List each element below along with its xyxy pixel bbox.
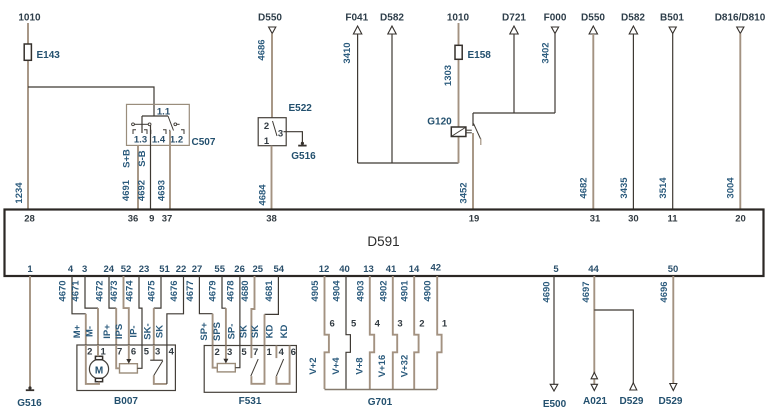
switch E522 <box>258 118 286 146</box>
svg-text:4696: 4696 <box>659 281 670 302</box>
svg-text:1: 1 <box>442 319 448 330</box>
potentiometer IPS <box>120 364 138 373</box>
svg-text:4682: 4682 <box>579 177 590 198</box>
svg-text:28: 28 <box>24 214 35 225</box>
svg-text:50: 50 <box>668 264 679 275</box>
fuse E143 <box>24 44 31 60</box>
control unit D591 <box>5 210 764 277</box>
svg-text:3435: 3435 <box>619 177 630 199</box>
svg-text:4678: 4678 <box>225 280 236 301</box>
svg-text:D529: D529 <box>659 396 683 407</box>
svg-text:42: 42 <box>431 263 442 274</box>
wire pin4 <box>166 345 168 384</box>
svg-text:A021: A021 <box>583 396 607 407</box>
svg-text:4672: 4672 <box>95 280 106 301</box>
svg-text:4681: 4681 <box>264 280 275 302</box>
C507 contact circle right <box>174 123 177 126</box>
arrow A021 up <box>591 373 597 379</box>
wire 3514 <box>672 34 674 210</box>
motor M <box>89 359 108 378</box>
svg-text:IP+: IP+ <box>102 324 113 339</box>
E522 pin3 branch to ground <box>284 132 303 143</box>
svg-text:V+32: V+32 <box>400 355 411 377</box>
svg-text:SK: SK <box>250 325 261 338</box>
svg-text:2: 2 <box>419 319 424 330</box>
wire 4681 KD <box>265 276 279 314</box>
svg-text:4671: 4671 <box>71 280 82 302</box>
svg-text:C507: C507 <box>192 137 216 148</box>
svg-text:F000: F000 <box>544 13 567 24</box>
svg-text:3: 3 <box>155 347 160 358</box>
svg-text:G120: G120 <box>427 117 452 128</box>
svg-text:B007: B007 <box>114 396 138 407</box>
svg-text:IP-: IP- <box>129 325 140 337</box>
C507 pin bracket 1.2 <box>170 130 184 134</box>
arrow D721 up <box>510 26 518 34</box>
wire bus to G120 coil <box>358 162 459 164</box>
svg-text:5: 5 <box>144 347 150 358</box>
svg-text:27: 27 <box>192 264 203 275</box>
svg-text:E158: E158 <box>468 50 492 61</box>
svg-text:E522: E522 <box>289 103 313 114</box>
wire 4697 to A021 <box>593 276 595 384</box>
svg-text:M+: M+ <box>72 324 83 338</box>
svg-text:G701: G701 <box>368 397 393 408</box>
svg-text:S-B: S-B <box>137 150 148 167</box>
arrow D550 up <box>589 26 597 34</box>
B007 box <box>77 345 175 391</box>
svg-text:3452: 3452 <box>459 182 470 203</box>
svg-text:M: M <box>95 366 103 377</box>
wire pin5 to pot <box>137 345 142 368</box>
wire 4678 SP- <box>239 276 241 346</box>
svg-text:36: 36 <box>128 214 139 225</box>
wire bus to G120 switch <box>473 112 555 114</box>
wire pin6 wiper arrow <box>128 345 130 361</box>
wire coil drop <box>458 137 460 164</box>
svg-text:1010: 1010 <box>18 13 41 24</box>
svg-text:6: 6 <box>131 347 136 358</box>
svg-text:D582: D582 <box>380 13 404 24</box>
svg-text:14: 14 <box>409 264 420 275</box>
unit F531 <box>185 276 297 407</box>
svg-text:V+8: V+8 <box>354 357 365 374</box>
svg-text:4674: 4674 <box>125 280 136 302</box>
svg-text:1303: 1303 <box>443 65 454 86</box>
wire 3452 to pin 19 <box>472 133 474 210</box>
svg-text:1.3: 1.3 <box>134 135 147 146</box>
svg-text:38: 38 <box>266 214 277 225</box>
C507 contact circle left <box>132 123 135 126</box>
wire 4900 <box>437 276 441 389</box>
wire 4901 V+32 <box>414 276 418 389</box>
wire 4684 <box>271 146 273 210</box>
svg-text:3: 3 <box>82 264 87 275</box>
svg-text:D529: D529 <box>620 396 644 407</box>
C507 contact stub right <box>177 123 180 125</box>
svg-text:D591: D591 <box>367 234 399 249</box>
G120 switch <box>472 113 474 126</box>
G120 coil <box>451 127 466 137</box>
svg-text:6: 6 <box>330 319 335 330</box>
wire 4691 S+B <box>137 145 139 209</box>
svg-text:1: 1 <box>27 264 33 275</box>
svg-text:SK: SK <box>239 325 250 338</box>
arrow F000 down <box>551 27 558 34</box>
G120 switch stub <box>480 139 482 146</box>
wire D582 <box>391 34 393 163</box>
svg-text:4: 4 <box>68 264 74 275</box>
svg-text:SPS: SPS <box>212 322 223 341</box>
C507 contact circle mid <box>148 123 151 126</box>
F531 box <box>204 346 296 393</box>
svg-text:54: 54 <box>274 264 285 275</box>
svg-text:4692: 4692 <box>137 180 148 201</box>
svg-text:4697: 4697 <box>581 281 592 302</box>
svg-text:3: 3 <box>278 129 283 140</box>
KD switch blade <box>276 359 283 376</box>
arrow D529 down <box>630 383 637 390</box>
KD switch link to pin6 <box>276 346 289 384</box>
svg-text:4680: 4680 <box>240 280 251 301</box>
svg-text:25: 25 <box>253 264 264 275</box>
svg-text:4902: 4902 <box>378 280 389 301</box>
svg-text:4905: 4905 <box>310 280 321 302</box>
arrow D816/D810 down <box>737 27 744 34</box>
wire pin3 wiper arrow <box>225 346 227 361</box>
svg-text:D816/D810: D816/D810 <box>715 13 766 24</box>
svg-text:D582: D582 <box>621 13 645 24</box>
wire pin7 to pot <box>116 345 119 368</box>
E522 contact blade <box>273 121 278 136</box>
svg-text:E143: E143 <box>37 50 61 61</box>
svg-text:4900: 4900 <box>423 280 434 301</box>
wire 4673 IPS <box>124 276 129 345</box>
svg-text:4: 4 <box>279 347 285 358</box>
svg-text:40: 40 <box>339 264 350 275</box>
wire 4696 to D529 <box>672 276 674 384</box>
arrow D582 up <box>388 26 396 34</box>
wire 4693 <box>169 131 171 210</box>
ground G516 (right) <box>301 142 304 145</box>
svg-text:13: 13 <box>363 264 374 275</box>
svg-text:G516: G516 <box>17 398 42 409</box>
svg-text:2: 2 <box>264 121 269 132</box>
wire pin5 to pot <box>235 346 240 368</box>
svg-text:KD: KD <box>279 325 290 339</box>
motor unit B007 <box>58 276 184 407</box>
svg-text:B501: B501 <box>660 13 684 24</box>
svg-text:4903: 4903 <box>355 280 366 301</box>
svg-text:4691: 4691 <box>121 179 132 201</box>
wire 4680 SK <box>251 276 254 346</box>
svg-text:D721: D721 <box>502 13 526 24</box>
arrow D582 up <box>629 26 637 34</box>
svg-text:V+16: V+16 <box>377 355 388 377</box>
svg-text:5: 5 <box>553 264 559 275</box>
svg-text:S+B: S+B <box>122 149 133 168</box>
wire 3410 <box>357 34 359 163</box>
svg-text:30: 30 <box>628 214 639 225</box>
svg-text:SP+: SP+ <box>199 322 210 341</box>
resistor pack G701 <box>308 276 448 408</box>
wire 4676 SK <box>167 276 184 345</box>
svg-text:1234: 1234 <box>14 182 25 204</box>
svg-text:22: 22 <box>176 264 187 275</box>
wire 4679 SPS <box>222 276 226 308</box>
svg-text:20: 20 <box>735 214 746 225</box>
svg-text:E500: E500 <box>543 399 567 410</box>
svg-text:3514: 3514 <box>658 177 669 199</box>
wire 4682 <box>592 34 594 210</box>
svg-text:2: 2 <box>87 347 92 358</box>
svg-text:3: 3 <box>397 319 402 330</box>
relay C507 <box>127 104 190 145</box>
svg-text:23: 23 <box>139 264 150 275</box>
fuse E158 <box>455 45 462 59</box>
SK switch link to pin 4 <box>154 376 167 384</box>
svg-text:1: 1 <box>267 347 273 358</box>
wire 3435 <box>632 34 634 210</box>
wire 4902 V+16 <box>393 276 397 389</box>
svg-text:4: 4 <box>169 347 175 358</box>
svg-text:4693: 4693 <box>157 180 168 201</box>
wire 3004 <box>739 34 741 210</box>
svg-text:4675: 4675 <box>147 280 158 302</box>
svg-text:D550: D550 <box>258 13 282 24</box>
svg-text:F531: F531 <box>239 396 262 407</box>
svg-text:2: 2 <box>214 347 219 358</box>
svg-text:6: 6 <box>291 347 296 358</box>
svg-text:11: 11 <box>667 214 678 225</box>
arrow A021 down <box>591 384 597 390</box>
svg-text:3004: 3004 <box>726 177 737 199</box>
svg-text:5: 5 <box>241 347 247 358</box>
arrow B501 down <box>669 27 676 34</box>
ground G516 (bottom left) <box>28 386 31 389</box>
branch to D529 <box>594 310 633 383</box>
C507 bridge contact wire <box>134 123 148 125</box>
C507 coil top bar <box>142 115 168 117</box>
wire 4904 V+4 <box>346 276 350 389</box>
svg-text:G516: G516 <box>291 151 316 162</box>
wire 4903 V+8 <box>370 276 374 389</box>
G120 plunger <box>466 129 472 131</box>
SK switch blade <box>251 359 258 376</box>
svg-text:37: 37 <box>162 214 173 225</box>
wire 4692 S-B <box>150 126 152 210</box>
svg-text:4901: 4901 <box>400 280 411 302</box>
svg-text:KD: KD <box>265 325 276 339</box>
svg-text:51: 51 <box>159 264 170 275</box>
svg-text:52: 52 <box>121 264 132 275</box>
wire 4672 IP+ <box>109 276 116 308</box>
svg-text:IPS: IPS <box>114 324 125 339</box>
svg-text:4670: 4670 <box>58 280 69 301</box>
wire 1303 <box>458 23 460 127</box>
G701 bus bar <box>325 389 438 391</box>
arrow D550 down <box>269 27 276 34</box>
wire 4905 V+2 <box>325 276 329 389</box>
svg-text:1: 1 <box>264 136 270 147</box>
C507 pin bracket 1.4 <box>151 130 166 134</box>
svg-text:7: 7 <box>117 347 122 358</box>
svg-text:3410: 3410 <box>342 42 353 63</box>
svg-text:SK-: SK- <box>142 323 153 339</box>
SK switch wire pin7 <box>250 346 252 359</box>
wire branch to C507 coil <box>28 87 154 116</box>
svg-text:31: 31 <box>590 214 601 225</box>
C507 blade 1.2 <box>168 116 174 131</box>
C507 pin bracket 1.3 <box>133 130 147 134</box>
arrow E500 down <box>550 384 558 391</box>
wire 4671 M- <box>85 276 98 308</box>
wire 4670 M+ <box>72 276 86 314</box>
svg-text:55: 55 <box>214 264 225 275</box>
svg-text:SK: SK <box>154 325 165 338</box>
C507 coil drop to 1.3 <box>141 116 143 133</box>
SK switch blade <box>154 361 163 376</box>
svg-text:V+4: V+4 <box>331 357 342 375</box>
wire D721 <box>513 34 515 113</box>
svg-text:V+2: V+2 <box>308 357 319 374</box>
wire 4677 SP+ <box>199 276 212 314</box>
svg-text:4690: 4690 <box>542 281 553 302</box>
wire 4686 <box>271 34 273 118</box>
arrow F041 up <box>353 26 361 34</box>
svg-text:4679: 4679 <box>207 280 218 301</box>
svg-text:4676: 4676 <box>169 280 180 301</box>
svg-text:F041: F041 <box>345 13 368 24</box>
wire 4674 IP- <box>139 276 142 345</box>
svg-text:12: 12 <box>319 264 330 275</box>
svg-text:19: 19 <box>469 214 480 225</box>
svg-text:9: 9 <box>149 214 154 225</box>
svg-text:24: 24 <box>104 264 115 275</box>
svg-text:1010: 1010 <box>447 13 470 24</box>
svg-text:SP-: SP- <box>227 324 238 340</box>
svg-text:4677: 4677 <box>185 280 196 301</box>
arrow D529 down (right) <box>670 384 677 391</box>
svg-text:D550: D550 <box>581 13 605 24</box>
svg-text:1.4: 1.4 <box>152 135 166 146</box>
svg-text:41: 41 <box>386 264 397 275</box>
wire pin2 to motor bottom <box>86 345 99 384</box>
wire 4675 SK- <box>154 276 161 308</box>
KD switch wire pin4 <box>275 346 277 359</box>
svg-text:3: 3 <box>227 347 232 358</box>
svg-text:4904: 4904 <box>332 280 343 302</box>
svg-text:4686: 4686 <box>257 39 268 60</box>
svg-text:44: 44 <box>588 264 599 275</box>
wire pin1 to ground <box>29 276 31 389</box>
svg-text:26: 26 <box>234 264 245 275</box>
SK switch contact bar <box>153 345 155 360</box>
svg-text:4684: 4684 <box>258 184 269 206</box>
SK switch link to pin1 <box>251 346 264 384</box>
wire pin2 to pot <box>213 346 218 368</box>
svg-text:7: 7 <box>253 347 258 358</box>
svg-text:4: 4 <box>375 319 381 330</box>
svg-text:5: 5 <box>351 319 357 330</box>
potentiometer SP <box>217 364 235 372</box>
wire 1010 to pin 28 <box>27 23 29 210</box>
svg-text:3402: 3402 <box>541 42 552 63</box>
svg-text:4673: 4673 <box>109 280 120 301</box>
svg-text:M-: M- <box>84 326 95 337</box>
wire pin1 to motor <box>97 345 99 356</box>
wire 3402 <box>554 34 556 114</box>
svg-text:1.2: 1.2 <box>170 135 183 146</box>
wire 4690 to E500 <box>553 276 555 384</box>
